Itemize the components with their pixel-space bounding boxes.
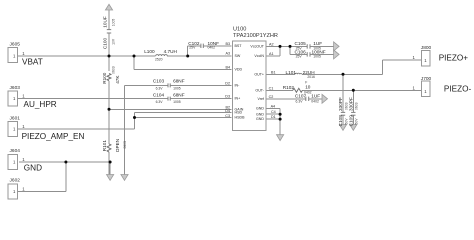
svg-text:330PF: 330PF [349, 97, 354, 111]
svg-text:VccIN: VccIN [254, 54, 264, 58]
svg-text:PIEZO+: PIEZO+ [439, 53, 469, 62]
svg-text:AU_HPR: AU_HPR [24, 100, 57, 109]
svg-text:C3: C3 [225, 114, 230, 118]
svg-text:25V: 25V [189, 46, 196, 50]
svg-text:B3: B3 [225, 42, 230, 46]
svg-text:R102: R102 [283, 85, 295, 90]
svg-text:6.3V: 6.3V [296, 100, 304, 104]
svg-text:VccOUT: VccOUT [250, 45, 264, 49]
svg-text:D1: D1 [271, 115, 276, 119]
svg-text:C104: C104 [153, 93, 165, 98]
svg-text:1UF: 1UF [311, 94, 320, 99]
svg-text:0402: 0402 [208, 46, 216, 50]
svg-text:J602: J602 [10, 178, 21, 184]
svg-text:68NF: 68NF [173, 93, 185, 98]
svg-text:330PF: 330PF [338, 97, 343, 111]
svg-text:D4: D4 [225, 109, 230, 113]
svg-text:GND: GND [24, 163, 42, 172]
svg-text:J700: J700 [421, 76, 432, 82]
svg-text:D3: D3 [225, 95, 230, 99]
svg-text:47K: 47K [115, 75, 120, 84]
svg-text:A3: A3 [225, 52, 230, 56]
svg-text:IN+: IN+ [235, 97, 241, 101]
svg-text:0603: 0603 [123, 141, 127, 149]
svg-text:U100: U100 [233, 26, 246, 32]
svg-text:R100: R100 [102, 72, 107, 84]
svg-text:HSD: HSD [235, 111, 243, 115]
svg-text:6.3V: 6.3V [156, 87, 164, 91]
svg-text:GND: GND [256, 112, 264, 116]
svg-text:L101: L101 [286, 70, 297, 75]
svg-text:J800: J800 [421, 45, 432, 51]
svg-text:10UF: 10UF [102, 16, 107, 28]
svg-text:GND: GND [256, 107, 264, 111]
svg-text:BST: BST [235, 44, 243, 48]
svg-text:PIEZO_AMP_EN: PIEZO_AMP_EN [22, 132, 85, 141]
svg-text:A4: A4 [271, 105, 276, 109]
svg-text:B1: B1 [271, 70, 276, 74]
svg-text:4.7UH: 4.7UH [164, 49, 177, 54]
svg-text:50V: 50V [355, 118, 359, 125]
svg-text:IN-: IN- [235, 83, 241, 87]
svg-text:C108: C108 [338, 115, 343, 127]
svg-text:VBAT: VBAT [22, 57, 43, 66]
svg-text:C2: C2 [269, 95, 274, 99]
svg-text:J601: J601 [10, 116, 21, 122]
svg-text:A2: A2 [269, 42, 274, 46]
svg-text:A1: A1 [269, 52, 274, 56]
svg-text:2520: 2520 [155, 58, 163, 62]
svg-text:25V: 25V [296, 55, 303, 59]
svg-text:0402: 0402 [311, 100, 319, 104]
svg-text:J604: J604 [10, 148, 21, 154]
svg-text:1005: 1005 [313, 55, 321, 59]
svg-text:0603: 0603 [355, 102, 359, 110]
svg-text:6.3V: 6.3V [156, 100, 164, 104]
svg-text:PIEZO-: PIEZO- [444, 84, 472, 93]
svg-text:TPA2100P1YZHR: TPA2100P1YZHR [233, 33, 278, 39]
svg-text:C4: C4 [271, 110, 276, 114]
svg-text:10: 10 [305, 84, 311, 89]
svg-text:SW: SW [235, 54, 241, 58]
svg-text:C103: C103 [153, 79, 165, 84]
svg-text:J603: J603 [10, 85, 21, 91]
svg-text:OUT+: OUT+ [254, 72, 264, 76]
svg-text:HSDB: HSDB [235, 116, 246, 120]
svg-text:C107: C107 [295, 94, 307, 99]
svg-text:68NF: 68NF [173, 79, 185, 84]
svg-text:0603: 0603 [111, 66, 115, 74]
svg-text:R101: R101 [102, 140, 107, 152]
svg-text:GND: GND [256, 117, 264, 121]
svg-text:1005: 1005 [173, 100, 181, 104]
svg-text:OPEN: OPEN [115, 139, 120, 152]
svg-text:D2: D2 [225, 81, 230, 85]
svg-text:1005: 1005 [173, 87, 181, 91]
svg-text:C1: C1 [269, 86, 274, 90]
svg-text:2016: 2016 [307, 75, 315, 79]
svg-text:J605: J605 [10, 41, 21, 47]
svg-text:10V: 10V [112, 38, 116, 45]
svg-text:1005: 1005 [112, 19, 116, 27]
svg-text:C109: C109 [349, 115, 354, 127]
svg-text:B4: B4 [225, 65, 230, 69]
svg-text:Vref: Vref [258, 97, 264, 101]
svg-text:OUT-: OUT- [255, 88, 264, 92]
svg-text:C100: C100 [102, 38, 107, 50]
svg-text:L100: L100 [144, 49, 155, 54]
svg-text:VDD: VDD [235, 68, 243, 72]
